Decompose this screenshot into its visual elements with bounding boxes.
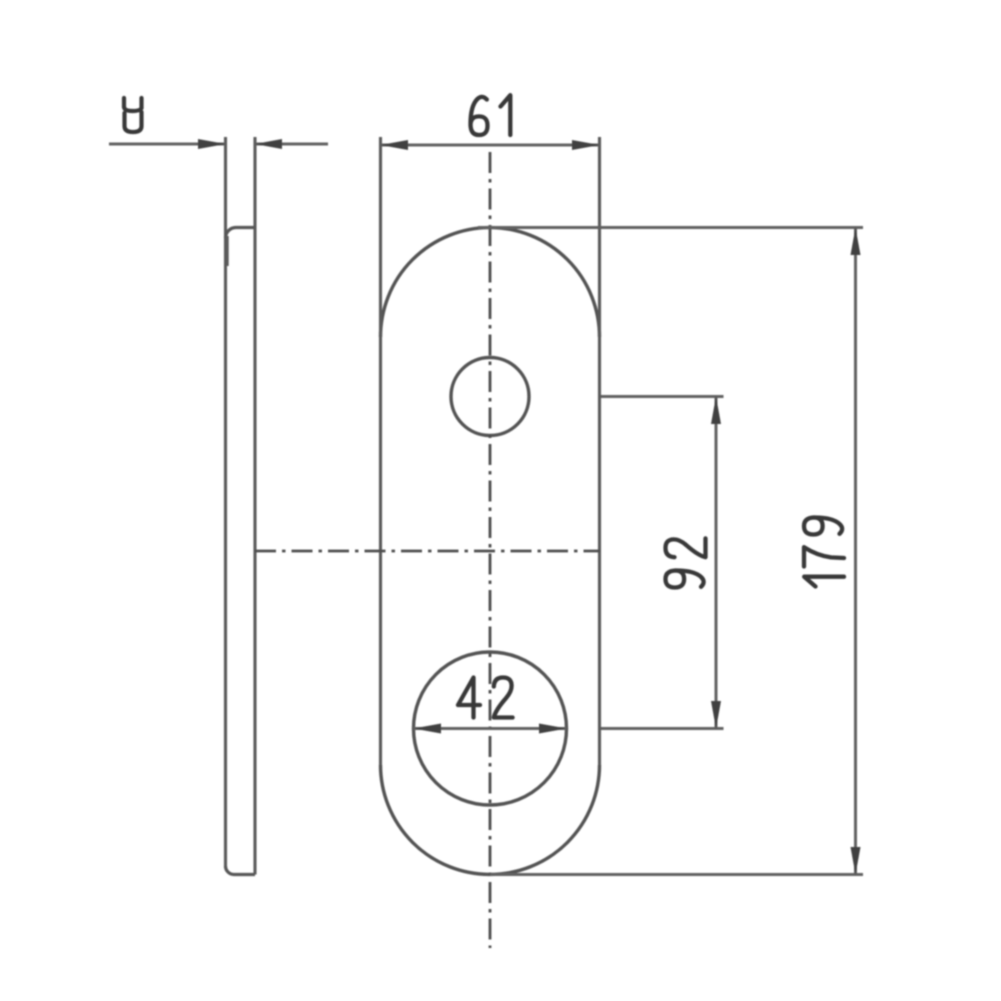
hole spacing dimension 92: bottom arrowhead — [711, 701, 721, 729]
width dimension 61: left arrowhead — [381, 140, 409, 150]
width dimension 61: value text — [471, 95, 511, 135]
horizontal centerline — [255, 550, 600, 553]
hole diameter dimension 42: dimension line — [414, 727, 567, 730]
overall height dimension 179: top arrowhead — [851, 228, 861, 256]
overall height dimension 179: top extension line — [478, 226, 863, 229]
thickness dimension 8: left dimension tail — [109, 143, 226, 146]
big hole circle (diameter 42) — [414, 652, 567, 805]
width dimension 61: dimension line — [381, 144, 600, 147]
side view plate bottom edge with rounded corner — [226, 866, 256, 875]
width dimension 61: right arrowhead — [572, 140, 600, 150]
hole spacing dimension 92: dimension line — [715, 397, 718, 729]
thickness dimension 8: left arrowhead — [198, 139, 226, 149]
small hole circle — [451, 358, 529, 436]
side view plate right edge (also extension line for thickness dim) — [253, 137, 256, 875]
front view stadium right edge (also extension line for width dim 61) — [598, 137, 601, 765]
thickness dimension 8: value text (open-top style digit) — [124, 98, 142, 132]
overall height dimension 179: bottom extension line — [490, 873, 863, 876]
thickness dimension 8: right arrowhead — [255, 139, 282, 149]
hole diameter dimension 42: value text — [458, 678, 513, 718]
overall height dimension 179: value text — [804, 518, 844, 587]
overall height dimension 179: dimension line — [854, 228, 857, 875]
thickness dimension 8: right dimension tail — [255, 143, 328, 146]
hole spacing dimension 92: top arrowhead — [711, 397, 721, 425]
hole diameter dimension 42: right arrowhead — [539, 724, 567, 734]
side view plate left edge (also extension line for thickness dim) — [224, 137, 227, 866]
hole spacing dimension 92: bottom extension line — [601, 727, 724, 730]
hole spacing dimension 92: value text — [666, 538, 706, 587]
overall height dimension 179: bottom arrowhead — [851, 847, 861, 875]
side view plate top edge with rounded corner — [226, 228, 256, 239]
vertical centerline — [489, 152, 492, 948]
hole diameter dimension 42: left arrowhead — [414, 724, 442, 734]
hole spacing dimension 92: top extension line — [601, 395, 724, 398]
front view stadium outline: bottom arc — [381, 765, 600, 874]
front view stadium outline: top arc — [381, 228, 600, 337]
front view stadium left edge (also extension line for width dim 61) — [379, 137, 382, 765]
side view top-left corner doubled edge — [225, 236, 228, 266]
